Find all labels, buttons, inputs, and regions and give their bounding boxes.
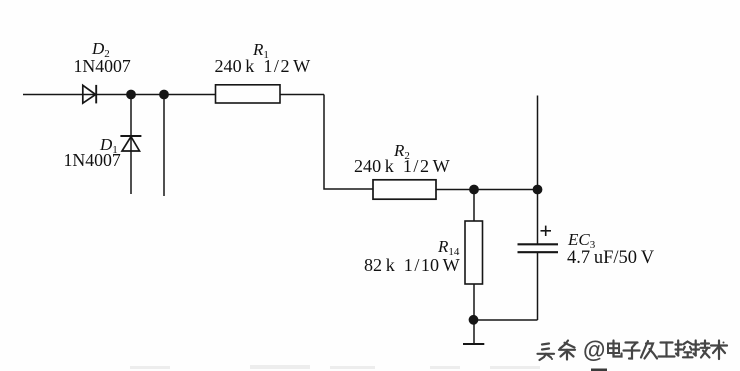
svg-text:@: @	[583, 337, 605, 363]
